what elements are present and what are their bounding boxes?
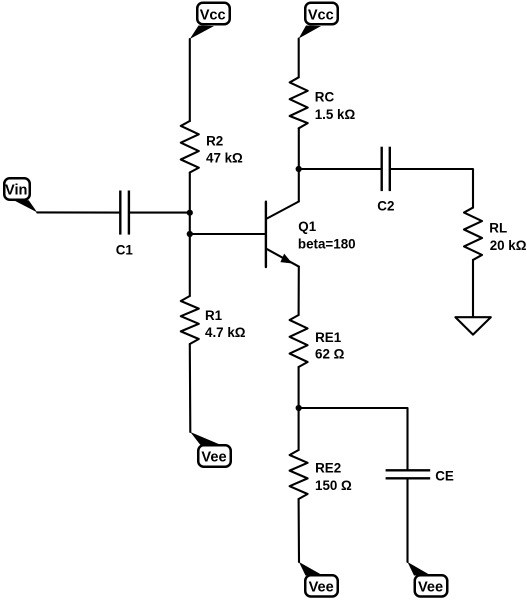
junction node B at base wire [187,231,193,237]
svg-text:Vee: Vee [201,450,226,466]
resistor R2 [181,121,199,173]
resistor RL [464,208,482,260]
svg-text:beta=180: beta=180 [298,236,356,251]
svg-text:Vcc: Vcc [200,8,226,24]
junction node E [296,405,302,411]
label Q1 beta=180 [298,219,356,251]
ground [455,317,490,334]
svg-text:Q1: Q1 [298,219,316,234]
svg-text:20 kΩ: 20 kΩ [490,238,527,253]
wire R1 to Vee [189,344,192,432]
wire RL to ground [472,260,474,317]
wire emitter (Q1 to RE1) [298,267,300,315]
svg-text:C1: C1 [116,243,134,258]
wire node E to CE [299,408,408,469]
svg-text:62 Ω: 62 Ω [315,346,345,361]
wire CE to Vee [406,480,408,563]
label RE1 62 Ohm [315,330,345,362]
resistor RE2 [290,450,308,499]
wire RE1 to RE2 (node E) [298,367,300,450]
svg-text:Vin: Vin [5,182,28,198]
svg-text:4.7 kΩ: 4.7 kΩ [205,325,246,340]
wire Vin to C1 [37,211,119,213]
transistor Q1 [266,202,299,268]
capacitor C2 [382,147,390,191]
svg-text:Vee: Vee [309,579,334,595]
label RE2 150 Ohm [315,461,352,493]
svg-text:1.5 kΩ: 1.5 kΩ [315,107,356,122]
wire collector node to C2 [299,168,381,170]
wire collector (Q1 to RC) [298,128,300,201]
svg-text:CE: CE [435,468,454,483]
junction collector node [296,166,302,172]
resistor RE1 [290,315,308,367]
svg-text:C2: C2 [377,198,394,213]
resistor R1 [181,296,199,344]
wire Vcc to R2 [189,39,191,121]
svg-text:150 Ω: 150 Ω [315,478,352,493]
svg-text:RE2: RE2 [315,461,341,476]
wire C1 to node B [130,212,190,214]
net flag Vcc (top of R2) [190,3,230,39]
label R1 4.7 kOhm [205,308,246,340]
net flag Vee (below CE) [408,562,448,597]
svg-text:RL: RL [489,221,507,236]
net flag Vee (below R1) [190,432,230,467]
wire R2 to R1 (node B vertical) [189,173,191,297]
wire RE2 to Vee [298,499,300,562]
wire base (node B to Q1 base) [190,233,265,235]
label R2 47 kOhm [206,133,243,165]
svg-text:RC: RC [315,90,335,105]
svg-text:R1: R1 [205,308,223,323]
svg-text:47 kΩ: 47 kΩ [206,151,243,166]
svg-text:Vcc: Vcc [308,8,334,24]
capacitor CE [386,470,431,478]
wire Vcc to RC [298,39,300,78]
net flag Vee (below RE2) [299,562,338,597]
net flag Vcc (top of RC) [299,3,338,39]
svg-text:Vee: Vee [418,579,443,595]
resistor RC [290,77,308,128]
wire C2 to RL [391,169,473,208]
svg-text:R2: R2 [206,133,223,148]
net flag Vin [4,178,37,212]
label RL 20 kOhm [489,221,526,253]
junction node B at C1 [187,210,193,216]
svg-text:RE1: RE1 [315,330,342,345]
capacitor C1 [120,191,129,235]
label RC 1.5 kOhm [315,90,356,122]
